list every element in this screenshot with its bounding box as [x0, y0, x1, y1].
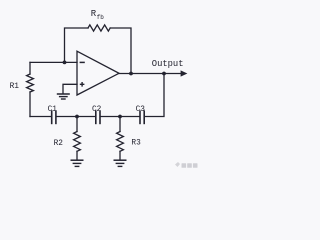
wire: non-inverting input to ground drop: [63, 84, 77, 93]
wire: R3 top lead from bottom rail: [119, 117, 121, 132]
resistor R3: [117, 132, 124, 152]
svg-text:C2: C2: [92, 106, 102, 114]
capacitor C2: [96, 111, 100, 123]
wire: R2 bottom lead to ground: [76, 151, 78, 159]
svg-text:R3: R3: [131, 139, 141, 147]
svg-text:R1: R1: [10, 83, 20, 91]
ground (op-amp non-inverting input): [57, 94, 70, 99]
wire: R1 top to inverting input: [30, 61, 77, 63]
node: R2 junction on bottom rail: [75, 115, 79, 119]
capacitor C3: [140, 111, 144, 123]
wire: op-amp output to arrow: [119, 73, 181, 75]
resistor R2: [74, 132, 81, 152]
wire: bottom rail segment C1 to C2 (through R2 node): [56, 116, 95, 118]
svg-text:C3: C3: [136, 106, 146, 114]
wire: bottom rail segment C3 to right riser up to output node: [145, 74, 164, 117]
output arrow head: [181, 70, 188, 76]
node: R3 junction on bottom rail: [118, 115, 122, 119]
wire: top feedback rail right + right vertical down to output node: [110, 28, 131, 74]
wire: R3 bottom lead to ground: [119, 151, 121, 159]
node: output-feedback junction: [129, 72, 133, 76]
op-amp U1: [77, 51, 119, 95]
svg-text:R2: R2: [54, 140, 64, 148]
svg-text:Output: Output: [152, 59, 184, 69]
wire: R1 top lead: [29, 62, 31, 74]
wire: R2 top lead from bottom rail: [76, 117, 78, 132]
wire: R1 bottom lead down to bottom rail: [29, 92, 31, 117]
ground (R2): [71, 160, 84, 166]
ground (R3): [114, 160, 127, 166]
watermark: [175, 162, 198, 168]
op-amp plus pin mark: [80, 82, 85, 87]
svg-text:fb: fb: [97, 14, 105, 21]
node: output-to-network junction: [162, 72, 166, 76]
resistor Rfb: [88, 25, 110, 31]
wire: bottom rail segment C2 to C3 (through R3 node): [100, 116, 139, 118]
wire: bottom rail segment R1 to C1: [30, 116, 51, 118]
node: inverting input junction: [63, 61, 67, 65]
capacitor C1: [52, 111, 56, 123]
svg-text:C1: C1: [48, 106, 58, 114]
resistor R1: [27, 74, 34, 92]
wire: top feedback rail left + left vertical to inverting node: [65, 28, 89, 62]
op-amp minus pin mark: [80, 61, 85, 63]
